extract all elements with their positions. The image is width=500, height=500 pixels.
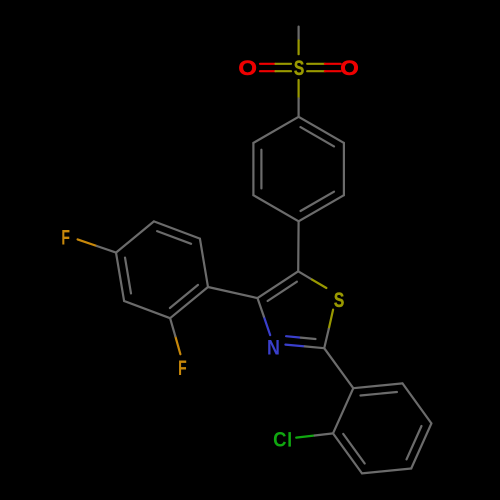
benzene ring 3 (chlorophenyl): [333, 383, 431, 473]
bond C2(thiazole)-C(chlorophenyl): [324, 348, 353, 388]
double bond S=O right: [307, 64, 340, 71]
double bond C2=N main: [285, 345, 324, 349]
benzene ring 2 (difluorophenyl): [116, 221, 208, 318]
double bond C2=N inner: [286, 336, 315, 339]
bond S-C2 (thiazole): [324, 310, 333, 349]
ring 2 inner double-bond lines: [125, 231, 198, 308]
double bond S=O left: [260, 64, 291, 71]
ring 3 inner double-bond lines: [343, 392, 421, 464]
bond S-C(aryl): [298, 80, 300, 117]
bond CH3-S (methyl stub): [298, 27, 300, 55]
benzene ring 1 (methylsulfonylphenyl): [253, 117, 344, 222]
bond C-Cl: [296, 433, 333, 437]
bond C4'-F (upper): [78, 239, 116, 252]
svg-text:O: O: [238, 56, 257, 80]
bond C(aryl)-C5(thiazole): [297, 221, 300, 271]
svg-text:F: F: [61, 225, 70, 249]
svg-text:S: S: [334, 288, 344, 312]
atom label Cl: l stem: [288, 432, 291, 447]
bond C4-C1'(difluorophenyl): [208, 287, 258, 298]
bond C2'-F (lower): [170, 318, 180, 354]
bond N-C4 (thiazole): [258, 298, 271, 335]
double bond C4=C5 (thiazole): [258, 271, 299, 298]
ring 1 inner double-bond lines: [261, 127, 334, 211]
bond C5-S (thiazole): [298, 271, 326, 288]
svg-text:C: C: [273, 428, 286, 451]
svg-text:F: F: [178, 356, 187, 380]
double bond C4=C5 inner: [268, 282, 297, 301]
svg-text:O: O: [340, 56, 359, 80]
svg-text:N: N: [267, 336, 280, 360]
svg-text:S: S: [294, 55, 304, 79]
